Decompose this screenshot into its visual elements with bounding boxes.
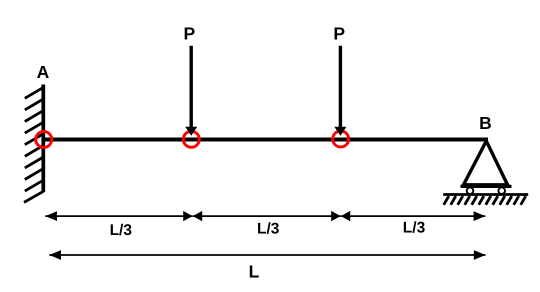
dimension line segment 3 (load2 to B) [341, 211, 486, 221]
dimension label L [249, 261, 260, 281]
label P2 [333, 24, 345, 44]
svg-text:L: L [249, 261, 260, 281]
wall hatching [24, 88, 44, 202]
load P2 arrowhead [334, 127, 346, 136]
dimension label L/3 first [110, 222, 133, 239]
hinge circle at load 1 [183, 131, 199, 147]
ground hatching [444, 196, 526, 205]
label P1 [183, 24, 195, 44]
hinge circle at load 2 [333, 131, 349, 147]
roller support triangle at B [464, 141, 508, 185]
ground line under B [443, 193, 528, 196]
dimension label L/3 second [257, 221, 280, 238]
roller wheel right [498, 187, 505, 194]
overall dimension line L [49, 250, 485, 260]
load P1 arrowhead [185, 127, 197, 136]
svg-text:A: A [37, 62, 50, 82]
beam [43, 138, 488, 142]
load P2 arrow shaft [339, 46, 342, 128]
svg-text:P: P [333, 24, 345, 44]
label B [479, 113, 492, 133]
dimension line segment 2 (load1 to load2) [193, 211, 341, 221]
svg-text:L/3: L/3 [403, 220, 426, 237]
hinge circle at A [36, 131, 52, 147]
dimension label L/3 third [403, 220, 426, 237]
roller support base plate [461, 185, 512, 188]
roller wheel left [467, 187, 474, 194]
label A [37, 62, 50, 82]
svg-text:P: P [183, 24, 195, 44]
svg-text:L/3: L/3 [257, 221, 280, 238]
svg-text:B: B [479, 113, 492, 133]
fixed support wall line at A [41, 85, 45, 193]
svg-text:L/3: L/3 [110, 222, 133, 239]
load P1 arrow shaft [189, 46, 192, 128]
dimension line segment 1 (A to load1) [45, 211, 192, 221]
